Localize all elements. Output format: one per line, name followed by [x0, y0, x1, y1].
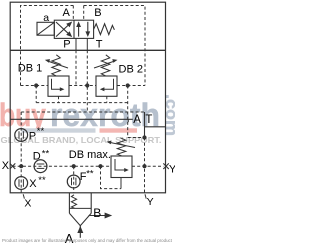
label P [63, 39, 70, 51]
node rail-drain branch [126, 83, 130, 87]
label A bottom [65, 231, 74, 246]
svg-text:Product images are for illustr: Product images are for illustrative purp… [2, 238, 173, 243]
solenoid a [37, 22, 54, 35]
wire DB drain rail dashed [36, 102, 128, 104]
DB2 spring [101, 55, 110, 76]
wire Y rail vertical dashed [144, 138, 146, 193]
wire T channel vertical solid [144, 112, 146, 138]
valve port stub bottom T [86, 38, 88, 50]
plug cross Y [163, 163, 169, 169]
block outline [10, 2, 165, 193]
svg-text:T: T [96, 39, 103, 51]
label Y bottom [145, 194, 154, 208]
footnote [2, 238, 173, 243]
node Y junction [142, 164, 146, 168]
valve port stub top B [83, 6, 85, 21]
svg-text:A: A [63, 7, 71, 19]
gauge port P circle [15, 129, 28, 142]
wire drain down dashed [127, 86, 129, 138]
check valve body [69, 193, 91, 214]
DB1 adjust arrow [45, 59, 68, 68]
svg-text:**: ** [37, 126, 45, 137]
label A top [63, 7, 71, 19]
valve parallel arrows [76, 21, 90, 37]
DB2 adjust arrow [94, 59, 118, 68]
wire pilot supply long dashed [21, 111, 144, 113]
svg-text:T: T [145, 114, 152, 126]
svg-text:P: P [29, 131, 36, 143]
divider line top section [10, 49, 165, 51]
node B branch [98, 164, 102, 168]
relief valve DB1 box [48, 76, 69, 96]
watermark .com vertical [162, 94, 181, 136]
wire DB2 drain stub [106, 96, 108, 102]
label X bottom [23, 194, 31, 209]
dashed border right [84, 6, 145, 86]
node T drain [142, 135, 146, 139]
svg-text:P: P [63, 39, 70, 51]
svg-text:X: X [29, 178, 37, 190]
svg-text:Y: Y [169, 163, 175, 175]
wire X rail dashed [13, 165, 112, 167]
wire F pipe dashed [73, 166, 75, 193]
node F branch [72, 164, 76, 168]
valve port stub top A [72, 6, 74, 21]
port B line with arrow [89, 213, 113, 219]
label T mid [145, 114, 152, 126]
svg-text:DB 2: DB 2 [119, 63, 143, 75]
check valve poppet [69, 213, 91, 225]
wire pilot rail right dashed [117, 85, 145, 87]
relief valve DB max box [111, 156, 132, 178]
directional valve body [54, 20, 93, 38]
label X gauge [29, 175, 46, 190]
wire pilot rail mid dashed [69, 85, 96, 87]
wire B branch down dashed [101, 166, 122, 188]
gauge port D circle [34, 160, 47, 173]
label DB max [69, 149, 111, 161]
watermark rexroth text [50, 97, 160, 133]
label A mid [133, 114, 141, 126]
label DB 2 [119, 63, 143, 75]
divider line mid right [145, 126, 166, 128]
label T [96, 39, 103, 51]
label D gauge [33, 149, 50, 163]
divider line mid left with tick [10, 119, 133, 122]
svg-text:.com: .com [162, 94, 175, 136]
node X junction [19, 164, 23, 168]
svg-text:**: ** [38, 175, 46, 186]
svg-text:X: X [2, 160, 10, 172]
svg-text:**: ** [42, 149, 50, 160]
wire DB max drain [120, 178, 122, 189]
port A line with arrow [77, 226, 83, 238]
wire drain corner dashed [128, 137, 145, 139]
watermark red strip [22, 128, 138, 132]
svg-text:a: a [43, 12, 49, 24]
wire P gauge down dashed [20, 112, 22, 193]
valve port stub bottom P [75, 38, 77, 50]
svg-text:B: B [93, 206, 101, 220]
label F gauge [80, 168, 94, 182]
wire DB1 drain stub [58, 96, 60, 102]
plug cross X [10, 163, 16, 169]
relief valve DB2 box [96, 76, 117, 96]
svg-text:B: B [94, 7, 101, 19]
watermark slogan [1, 136, 162, 145]
wire P gauge branch dashed [35, 86, 37, 103]
dashed border left [21, 6, 74, 86]
label P gauge [29, 126, 45, 142]
gauge port X circle [15, 177, 28, 190]
valve crossed arrows [56, 22, 72, 38]
valve spring [94, 24, 115, 35]
wire T channel dashed [86, 50, 88, 112]
svg-text:DB max.: DB max. [69, 149, 111, 161]
label B top [94, 7, 101, 19]
wire P channel dashed [75, 50, 77, 85]
node rail-T branch [85, 83, 89, 87]
label X port left [2, 160, 10, 172]
svg-text:DB 1: DB 1 [18, 63, 42, 75]
svg-text:A: A [133, 114, 141, 126]
svg-text:X: X [24, 197, 31, 209]
label Y port right [169, 163, 177, 175]
label B bottom [93, 206, 101, 220]
watermark buy text [0, 97, 46, 133]
wire pilot rail left dashed [21, 85, 49, 87]
label DB 1 [18, 63, 42, 75]
svg-text:**: ** [86, 168, 94, 179]
gauge port F circle [67, 175, 80, 188]
label a [43, 12, 49, 24]
DB max spring [117, 138, 126, 156]
DB max adjust arrow [107, 141, 135, 148]
svg-text:Y: Y [147, 196, 154, 208]
wire DB max to Y dashed [132, 165, 164, 167]
node rail-P branch [34, 83, 38, 87]
check valve spring [71, 195, 76, 208]
DB1 spring [52, 55, 61, 76]
